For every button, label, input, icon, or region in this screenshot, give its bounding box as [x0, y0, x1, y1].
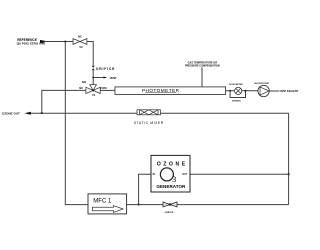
reference inlet arrow	[40, 40, 49, 43]
node junction sample/V1	[41, 112, 43, 114]
MFC 1 mass flow controller	[88, 194, 127, 214]
wire vent branch	[93, 77, 103, 79]
node junction generator out	[288, 173, 290, 175]
node V1 center	[92, 89, 94, 91]
svg-text:3: 3	[172, 174, 176, 184]
svg-text:V2: V2	[79, 45, 83, 49]
svg-text:FLOW METER: FLOW METER	[229, 84, 243, 86]
valve V2 (NC)	[73, 39, 87, 45]
static mixer	[137, 110, 161, 115]
wire MFC out to riser	[127, 204, 289, 206]
wire zero air to MFC	[65, 42, 88, 205]
node bypass tee left	[229, 90, 231, 92]
label O3	[160, 168, 173, 181]
wire compensation sensor to photometer	[201, 67, 203, 87]
wire main ozone sample line	[31, 112, 289, 114]
svg-text:COM: COM	[100, 86, 107, 90]
vent arrow	[103, 77, 107, 79]
node vent tee junction	[92, 77, 94, 79]
svg-text:OUT: OUT	[182, 174, 187, 176]
svg-text:OZONE: OZONE	[157, 162, 188, 168]
photometer box	[115, 87, 226, 95]
label GAS TEMPERATURE OR PRESSURE COMPENSATION	[185, 61, 220, 67]
svg-text:V1: V1	[92, 93, 96, 97]
svg-text:IN: IN	[153, 174, 156, 176]
svg-text:OZONE OUT: OZONE OUT	[2, 112, 20, 116]
valve V1 (3-way)	[86, 85, 100, 94]
valve V3 (bypass needle valve)	[163, 202, 177, 207]
ozone generator U1	[151, 155, 190, 192]
node junction MFC out tee	[138, 203, 140, 205]
ozone out arrow	[24, 112, 31, 115]
svg-text:MFC 1: MFC 1	[93, 198, 112, 204]
wire generator IN branch	[139, 174, 151, 204]
svg-text:PRESSURE COMPENSATION: PRESSURE COMPENSATION	[185, 65, 220, 68]
node bypass tee right	[245, 90, 247, 92]
MFC flow arrow	[92, 206, 123, 213]
node junction reference/MFC split	[64, 40, 66, 42]
svg-text:BYPASS: BYPASS	[232, 99, 241, 102]
valve V3 center	[168, 203, 172, 206]
flow meter	[235, 87, 242, 94]
wire orifice to valve V1 top port	[92, 70, 94, 85]
svg-text:ORIFICE: ORIFICE	[165, 212, 174, 214]
svg-text:VENT EXHAUST: VENT EXHAUST	[280, 90, 299, 93]
svg-text:VENT: VENT	[110, 76, 117, 80]
label REFERENCE (35 PSIG ZERO AIR)	[17, 38, 45, 46]
wire V2 to orifice	[87, 42, 93, 66]
svg-text:VACUUM PUMP: VACUUM PUMP	[254, 82, 270, 85]
svg-text:NC: NC	[79, 86, 83, 90]
svg-text:STATIC MIXER: STATIC MIXER	[134, 121, 164, 125]
wire reference line to valve V2	[44, 41, 73, 43]
wire right riser (generator out to sample line)	[288, 113, 290, 204]
svg-text:ORIFICE: ORIFICE	[96, 67, 115, 71]
svg-text:PHOTOMETER: PHOTOMETER	[142, 88, 180, 93]
svg-text:NC: NC	[78, 34, 82, 38]
vacuum pump P1	[258, 85, 269, 96]
svg-text:NO: NO	[82, 80, 86, 84]
orifice symbol	[92, 66, 95, 71]
wire generator OUT	[190, 173, 289, 175]
wire bypass loop	[230, 91, 245, 98]
wire V1 COM port to photometer	[100, 89, 115, 91]
wire photometer to vacuum pump	[226, 90, 258, 92]
wire V1 NC port to sample line	[42, 90, 86, 113]
svg-text:GENERATOR: GENERATOR	[156, 184, 186, 189]
wire pump to exhaust	[269, 90, 279, 92]
